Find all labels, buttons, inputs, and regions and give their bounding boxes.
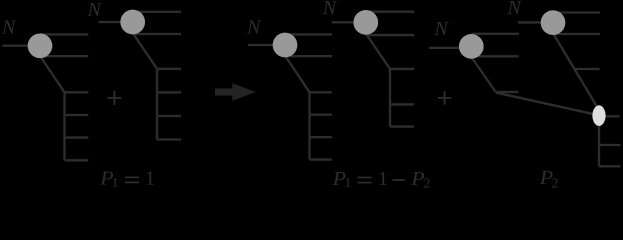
- wire T5B upper right branch: [553, 11, 600, 13]
- wire T4 upper right branch: [366, 11, 414, 13]
- wire T5B mid branch tip: [575, 68, 600, 70]
- wire T1 comb tick 2: [65, 114, 89, 116]
- node T1 (population circle): [28, 33, 53, 58]
- wire T1 left branch: [3, 45, 41, 47]
- wire T2 lower right branch: [133, 33, 181, 35]
- wire T2 comb vertical: [156, 68, 158, 140]
- plus sign 1: [107, 91, 121, 105]
- wire T5 ellipse right tip: [599, 115, 619, 117]
- node T5B (population circle): [541, 10, 566, 35]
- wire T1 comb tick 1: [65, 91, 89, 93]
- wire T4 left branch: [332, 21, 366, 23]
- wire T3 lower right branch: [285, 55, 332, 57]
- label P2: [539, 167, 559, 192]
- wire T5A upper right branch: [471, 33, 519, 35]
- wire T5A diagonal: [471, 57, 496, 92]
- svg-text:N: N: [434, 18, 450, 40]
- wire T5B lower right branch: [553, 33, 600, 35]
- arrow: [215, 83, 256, 101]
- wire T3 comb tick 4: [310, 158, 332, 160]
- wire T1 comb vertical: [63, 91, 65, 160]
- wire T4 comb tick 1: [390, 68, 414, 70]
- wire T5 comb tick 2: [599, 165, 621, 167]
- wire T5A lower right branch: [471, 55, 519, 57]
- wire T2 diagonal: [133, 33, 157, 69]
- svg-text:1: 1: [378, 168, 388, 188]
- wire T4 comb tick 3: [390, 125, 414, 127]
- wire T5A stub tip: [496, 91, 518, 93]
- svg-text:2: 2: [424, 176, 431, 188]
- wire T3 comb vertical: [308, 91, 310, 160]
- svg-text:N: N: [246, 17, 262, 39]
- node T2 (population circle): [120, 10, 145, 35]
- wire T2 comb tick 4: [157, 138, 181, 140]
- wire T4 diagonal: [366, 34, 390, 69]
- wire T5B diagonal: [554, 34, 600, 110]
- wire T4 comb vertical: [389, 68, 391, 127]
- node T4 (population circle): [353, 10, 378, 35]
- wire T5B left branch: [518, 21, 553, 23]
- wire T2 upper right branch: [133, 11, 181, 13]
- wire T5 comb vertical: [598, 116, 600, 166]
- wire T4 lower right branch: [366, 34, 414, 36]
- wire T2 left branch: [99, 21, 133, 23]
- label P1 = 1 - P2: [332, 168, 431, 192]
- wire T5A left branch: [429, 47, 472, 49]
- node coalescent (white ellipse): [592, 105, 605, 126]
- wire T2 comb tick 1: [157, 68, 181, 70]
- wire T3 comb tick 1: [310, 91, 332, 93]
- wire T3 upper right branch: [285, 33, 332, 35]
- wire T3 diagonal: [285, 56, 310, 93]
- svg-text:N: N: [87, 0, 103, 21]
- node T3 (population circle): [273, 33, 298, 58]
- svg-text:2: 2: [552, 177, 559, 188]
- wire T1 lower right branch: [40, 55, 88, 57]
- svg-text:N: N: [1, 17, 17, 39]
- wire T2 comb tick 2: [157, 91, 181, 93]
- wire T1 comb tick 4: [65, 159, 89, 161]
- label P1 = 1: [99, 168, 155, 191]
- svg-text:1: 1: [345, 176, 352, 188]
- wire T3 comb tick 2: [310, 114, 332, 116]
- svg-text:N: N: [507, 0, 523, 19]
- wire T1 diagonal: [40, 56, 65, 92]
- wire T1 upper right branch: [40, 33, 88, 35]
- svg-text:N: N: [322, 0, 338, 19]
- plus sign 2: [438, 91, 451, 104]
- svg-text:1: 1: [145, 168, 155, 188]
- wire T1 comb tick 3: [65, 136, 89, 138]
- wire T4 comb tick 2: [390, 103, 414, 105]
- wire T5 comb tick 1: [599, 144, 621, 146]
- wire T5A coalescing line: [496, 93, 594, 115]
- node T5A (population circle): [459, 34, 484, 59]
- wire T3 left branch: [248, 44, 285, 46]
- wire T3 comb tick 3: [310, 136, 332, 138]
- wire T2 comb tick 3: [157, 115, 181, 117]
- svg-text:1: 1: [112, 176, 119, 188]
